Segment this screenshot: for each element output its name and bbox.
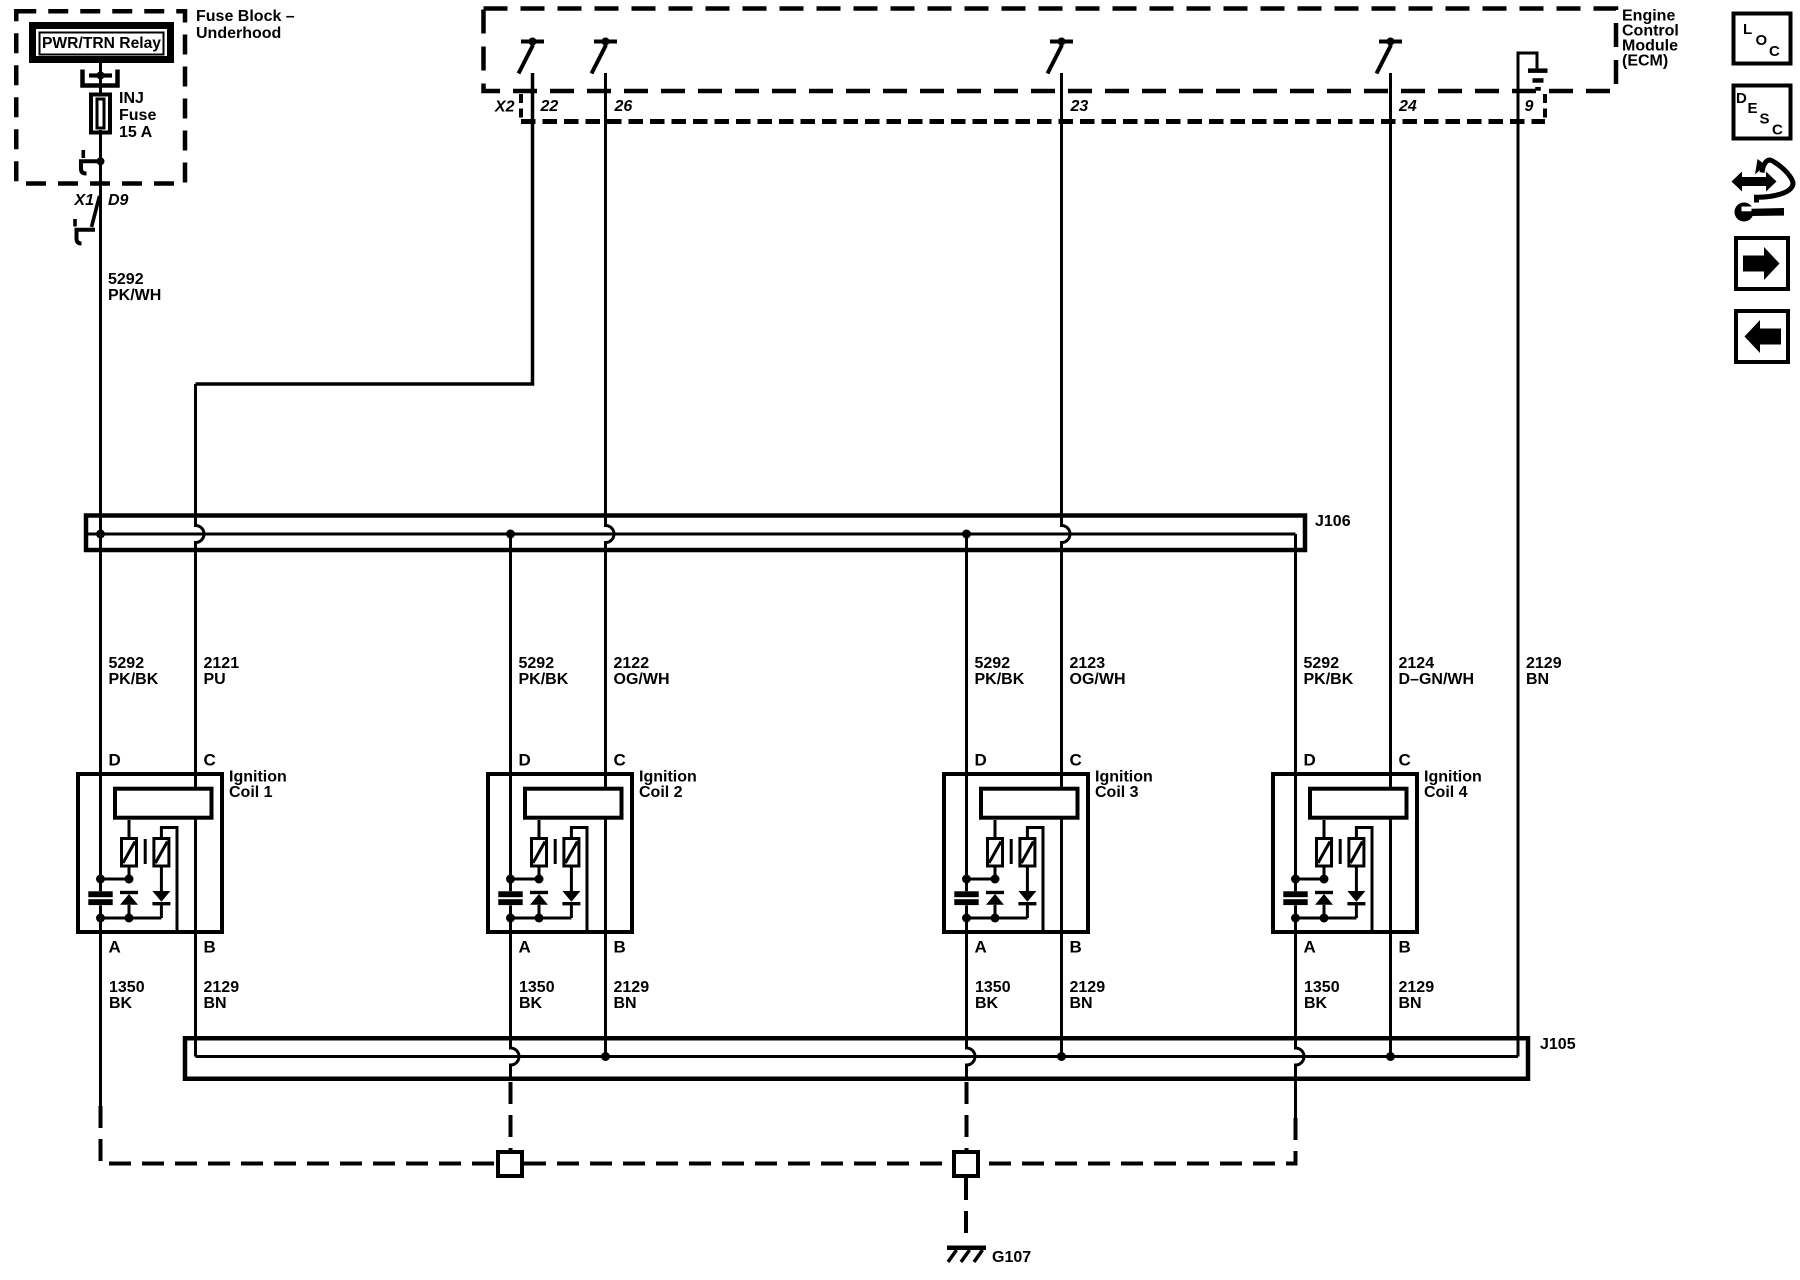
wire fuse to connector X1/D9 <box>99 130 102 530</box>
svg-text:B: B <box>614 938 626 957</box>
svg-text:PK/BK: PK/BK <box>109 671 159 688</box>
coil 4 link primary to pin D line <box>1296 878 1325 881</box>
Engine Control Module (ECM) title <box>1622 8 1679 70</box>
svg-text:5292: 5292 <box>1304 655 1340 672</box>
wire label 1350 BK coil 1 <box>109 979 145 1012</box>
junction dot at relay terminal <box>97 72 105 80</box>
wire 1350 BK : coil 1 pin A down <box>99 905 102 1106</box>
ignition coil 4 name label <box>1424 769 1482 802</box>
svg-text:D: D <box>1736 90 1747 107</box>
svg-text:BN: BN <box>1526 671 1549 688</box>
wire 2122 OG/WH : ECM pin 26 to coil 2 pin C (hops J106) <box>606 73 615 789</box>
coil 4 diode (down) <box>1347 866 1365 918</box>
wire 5292 PK/WH and PK/BK : fuse to splice J106 to coil 1 pin D <box>99 530 102 892</box>
coil 1 secondary output lead <box>161 828 177 933</box>
svg-text:5292: 5292 <box>108 271 144 288</box>
svg-text:E: E <box>1748 100 1758 117</box>
connector X2 row left divider <box>519 94 523 119</box>
ECM output driver pin 26 <box>592 38 618 74</box>
coil 3 link primary to pin D line <box>967 878 996 881</box>
relay PWR/TRN Relay <box>33 26 171 60</box>
svg-text:L: L <box>1743 21 1752 38</box>
svg-text:C: C <box>1772 122 1783 139</box>
svg-text:Coil 4: Coil 4 <box>1424 784 1468 801</box>
coil 4 junction dots <box>1291 875 1329 923</box>
junction dot J105 coil4 ground <box>1386 1052 1395 1061</box>
svg-text:2123: 2123 <box>1070 655 1106 672</box>
coil 2 link primary to pin D line <box>511 878 540 881</box>
svg-text:2129: 2129 <box>204 979 240 996</box>
svg-text:2129: 2129 <box>1070 979 1106 996</box>
ignition coil 1 case <box>78 774 222 932</box>
wire label 5292 PK/BK coil4 <box>1304 655 1354 688</box>
svg-text:G107: G107 <box>992 1249 1031 1266</box>
svg-text:D9: D9 <box>108 192 129 209</box>
wire 1350 BK : coil 3 pin A down (hops J105) <box>967 905 976 1078</box>
svg-text:BK: BK <box>109 995 133 1012</box>
wire label 2122 OG/WH <box>614 655 670 688</box>
ground lead coil 4 (dashed) to splice S2 <box>980 1118 1296 1164</box>
junction dot J105 coil2 ground <box>601 1052 610 1061</box>
icon forward arrow box <box>1736 238 1788 289</box>
junction dot J105 coil3 ground <box>1057 1052 1066 1061</box>
wire label 2129 BN pin9 <box>1526 655 1562 688</box>
svg-text:Ignition: Ignition <box>1095 769 1153 786</box>
svg-text:26: 26 <box>614 98 633 115</box>
ignition coil 3 case <box>944 774 1088 932</box>
wire label 2121 PU <box>204 655 240 688</box>
junction dot at fuse output terminal <box>97 157 105 165</box>
wire label 1350 BK coil 2 <box>519 979 555 1012</box>
svg-text:B: B <box>1399 938 1411 957</box>
svg-text:2122: 2122 <box>614 655 650 672</box>
svg-text:5292: 5292 <box>519 655 555 672</box>
coil 1 link primary to pin D line <box>101 878 130 881</box>
svg-text:Coil 2: Coil 2 <box>639 784 683 801</box>
wire label 5292 PK/BK coil1 <box>109 655 159 688</box>
svg-text:A: A <box>519 938 531 957</box>
svg-text:1350: 1350 <box>519 979 555 996</box>
coil 2 bottom link to pin A line <box>511 917 572 920</box>
Fuse Block - Underhood dashed enclosure <box>16 11 185 183</box>
svg-text:D–GN/WH: D–GN/WH <box>1399 671 1475 688</box>
svg-text:Ignition: Ignition <box>639 769 697 786</box>
svg-text:B: B <box>1070 938 1082 957</box>
splice J106 internal bus wire <box>88 533 1296 536</box>
ECM output driver pin 23 <box>1048 38 1074 74</box>
wire 5292 PK/BK : splice J106 to coil 2 pin D <box>509 534 512 891</box>
coil 3 core <box>1010 839 1013 864</box>
svg-text:PK/BK: PK/BK <box>519 671 569 688</box>
svg-text:Fuse Block –: Fuse Block – <box>196 8 295 25</box>
coil 1 capacitor <box>88 891 112 905</box>
svg-text:C: C <box>1070 751 1082 770</box>
svg-text:B: B <box>204 938 216 957</box>
junction dot J106 coil2 feed <box>506 530 515 539</box>
coil 1 zener diode (up) <box>120 891 138 918</box>
ground lead coil 2 (dashed) to splice S1 <box>509 1082 513 1150</box>
svg-text:1350: 1350 <box>975 979 1011 996</box>
coil 4 primary winding <box>1317 839 1332 867</box>
coil 4 primary winding lower lead <box>1323 866 1326 879</box>
wire 1350 BK : coil 2 pin A down (hops J105) <box>511 905 520 1078</box>
splice pack J106 outline <box>86 516 1305 551</box>
svg-text:BN: BN <box>204 995 227 1012</box>
ignition coil 2 control module block <box>525 789 622 818</box>
wire label 5292 PK/WH <box>108 271 161 304</box>
svg-text:OG/WH: OG/WH <box>1070 671 1126 688</box>
svg-text:9: 9 <box>1525 98 1534 115</box>
coil 3 secondary winding <box>1020 839 1035 867</box>
svg-text:2129: 2129 <box>1399 979 1435 996</box>
coil 1 secondary winding <box>154 839 169 867</box>
Engine Control Module dashed enclosure <box>484 9 1617 92</box>
svg-text:PK/BK: PK/BK <box>1304 671 1354 688</box>
svg-text:24: 24 <box>1398 98 1417 115</box>
svg-text:BK: BK <box>975 995 999 1012</box>
svg-text:C: C <box>204 751 216 770</box>
wire label 2129 BN coil 2 <box>614 979 650 1012</box>
svg-text:BK: BK <box>1304 995 1328 1012</box>
svg-text:PK/WH: PK/WH <box>108 287 161 304</box>
coil 3 lead module to primary winding <box>994 820 997 839</box>
svg-text:5292: 5292 <box>975 655 1011 672</box>
coil 4 lead module to primary winding <box>1323 820 1326 839</box>
wire 2123 OG/WH : ECM pin 23 to coil 3 pin C (hops J106) <box>1062 73 1071 789</box>
wire label 2123 OG/WH <box>1070 655 1126 688</box>
svg-text:1350: 1350 <box>1304 979 1340 996</box>
svg-text:PWR/TRN Relay: PWR/TRN Relay <box>42 35 161 52</box>
svg-text:PK/BK: PK/BK <box>975 671 1025 688</box>
connector X1 pin D9 labels <box>73 192 128 209</box>
svg-text:S: S <box>1760 111 1770 128</box>
coil 2 primary winding lower lead <box>538 866 541 879</box>
icon LOC box <box>1734 14 1791 64</box>
svg-text:23: 23 <box>1070 98 1089 115</box>
ignition coil 3 control module block <box>981 789 1078 818</box>
splice J105 internal bus wire <box>196 1055 1519 1058</box>
icon DESC box <box>1734 86 1791 139</box>
wire label 1350 BK coil 4 <box>1304 979 1340 1012</box>
svg-text:Underhood: Underhood <box>196 25 281 42</box>
svg-text:1350: 1350 <box>109 979 145 996</box>
svg-text:2124: 2124 <box>1399 655 1435 672</box>
coil 1 lead module to primary winding <box>128 820 131 839</box>
wire coil 1 primary to pin B and splice J105 <box>194 820 197 1057</box>
coil 1 junction dots <box>96 875 134 923</box>
coil 2 capacitor <box>498 891 522 905</box>
svg-text:C: C <box>1399 751 1411 770</box>
wire label 2129 BN coil 1 <box>204 979 240 1012</box>
coil 2 junction dots <box>506 875 544 923</box>
coil 3 primary winding lower lead <box>994 866 997 879</box>
coil 4 secondary output lead <box>1356 828 1372 933</box>
icon swap/replace with wrench <box>1732 159 1793 222</box>
svg-text:A: A <box>975 938 987 957</box>
coil 2 lead module to primary winding <box>538 820 541 839</box>
coil 2 secondary winding <box>564 839 579 867</box>
wire label 2129 BN coil 4 <box>1399 979 1435 1012</box>
coil 2 diode (down) <box>562 866 580 918</box>
svg-text:BN: BN <box>1070 995 1093 1012</box>
wire 5292 PK/BK : splice J106 inner wire turns down to coil 4 pin D <box>1294 534 1297 891</box>
ignition coil 4 control module block <box>1310 789 1407 818</box>
svg-text:O: O <box>1756 32 1768 49</box>
svg-text:PU: PU <box>204 671 226 688</box>
splice S2 <box>954 1152 978 1176</box>
ECM output driver pin 22 <box>519 38 545 74</box>
ignition coil 3 name label <box>1095 769 1153 802</box>
svg-text:OG/WH: OG/WH <box>614 671 670 688</box>
ground G107 symbol <box>947 1246 986 1263</box>
connector terminal blade at X1/D9 <box>75 196 100 244</box>
svg-text:Ignition: Ignition <box>229 769 287 786</box>
ignition coil 1 control module block <box>115 789 212 818</box>
fuse INJ Fuse 15 A <box>91 95 110 133</box>
wire label 5292 PK/BK coil3 <box>975 655 1025 688</box>
svg-text:X2: X2 <box>494 99 515 116</box>
svg-text:(ECM): (ECM) <box>1622 53 1668 70</box>
wire 1350 BK : coil 4 pin A down (hops J105) <box>1296 905 1305 1118</box>
ECM output driver pin 24 <box>1377 38 1403 74</box>
wire label 2129 BN coil 3 <box>1070 979 1106 1012</box>
wire 5292 PK/BK : splice J106 to coil 3 pin D <box>965 534 968 891</box>
svg-text:D: D <box>109 751 121 770</box>
ground lead splice S1 to splice S2 (dashed) <box>524 1162 952 1166</box>
ground lead coil 1 (dashed) to splice S1 <box>101 1106 497 1164</box>
connector X2 row dotted boundary <box>521 119 1545 124</box>
connector X2 row right divider <box>1543 94 1547 119</box>
coil 3 primary winding <box>988 839 1003 867</box>
relay output terminal bracket <box>83 70 118 86</box>
ignition coil 4 case <box>1273 774 1417 932</box>
svg-text:2121: 2121 <box>204 655 240 672</box>
wire 2124 D-GN/WH : ECM pin 24 to coil 4 pin C <box>1389 73 1392 789</box>
junction dot J106 coil1 feed <box>96 530 105 539</box>
svg-text:BK: BK <box>519 995 543 1012</box>
svg-text:D: D <box>975 751 987 770</box>
svg-text:X1: X1 <box>73 192 94 209</box>
coil 2 zener diode (up) <box>530 891 548 918</box>
svg-text:BN: BN <box>614 995 637 1012</box>
ground lead coil 3 (dashed) to splice S2 <box>965 1082 969 1150</box>
coil 4 core <box>1339 839 1342 864</box>
coil 1 core <box>144 839 147 864</box>
coil 3 bottom link to pin A line <box>967 917 1028 920</box>
coil 3 zener diode (up) <box>986 891 1004 918</box>
wire label 1350 BK coil 3 <box>975 979 1011 1012</box>
wire relay output to fuse <box>99 63 102 98</box>
svg-text:Coil 3: Coil 3 <box>1095 784 1139 801</box>
coil 1 diode (down) <box>152 866 170 918</box>
ignition coil 2 name label <box>639 769 697 802</box>
wire label 2124 D-GN/WH <box>1399 655 1475 688</box>
wire 2121 PU : pin22 node down to coil 1 pin C (hops J106) <box>196 384 205 789</box>
coil 2 core <box>554 839 557 864</box>
svg-text:C: C <box>614 751 626 770</box>
ignition coil 2 case <box>488 774 632 932</box>
svg-text:2129: 2129 <box>1526 655 1562 672</box>
svg-text:A: A <box>1304 938 1316 957</box>
svg-text:15 A: 15 A <box>119 124 153 141</box>
ignition coil 1 name label <box>229 769 287 802</box>
svg-text:BN: BN <box>1399 995 1422 1012</box>
svg-text:Ignition: Ignition <box>1424 769 1482 786</box>
svg-text:5292: 5292 <box>109 655 145 672</box>
coil 3 diode (down) <box>1018 866 1036 918</box>
svg-text:A: A <box>109 938 121 957</box>
svg-text:2129: 2129 <box>614 979 650 996</box>
coil 1 bottom link to pin A line <box>101 917 162 920</box>
coil 3 junction dots <box>962 875 1000 923</box>
svg-text:J106: J106 <box>1315 513 1351 530</box>
svg-text:D: D <box>1304 751 1316 770</box>
coil 4 secondary winding <box>1349 839 1364 867</box>
wire 2129 BN : coil 2 pin B to splice J105 <box>604 820 607 1057</box>
svg-text:INJ: INJ <box>119 90 144 107</box>
wire 2129 BN : coil 4 pin B to splice J105 <box>1389 820 1392 1057</box>
svg-text:Fuse: Fuse <box>119 107 156 124</box>
wire ECM pin 22 to node for coil 1 (2121) <box>196 73 533 384</box>
svg-text:J105: J105 <box>1540 1036 1576 1053</box>
wire label 5292 PK/BK coil2 <box>519 655 569 688</box>
coil 4 capacitor <box>1283 891 1307 905</box>
coil 1 primary winding <box>122 839 137 867</box>
wire 2129 BN : coil 3 pin B to splice J105 <box>1060 820 1063 1057</box>
splice S1 <box>498 1152 522 1176</box>
wire 2129 BN : ECM pin 9 down to splice J105 <box>1517 122 1520 1057</box>
coil 3 secondary output lead <box>1027 828 1043 933</box>
coil 4 zener diode (up) <box>1315 891 1333 918</box>
fuse value label INJ Fuse 15 A <box>119 90 156 141</box>
icon back arrow box <box>1736 311 1788 362</box>
coil 2 secondary output lead <box>571 828 587 933</box>
coil 3 capacitor <box>954 891 978 905</box>
junction dot J106 coil3 feed <box>962 530 971 539</box>
coil 4 bottom link to pin A line <box>1296 917 1357 920</box>
coil 1 primary winding lower lead <box>128 866 131 879</box>
svg-text:C: C <box>1769 43 1780 60</box>
splice pack J105 outline <box>185 1038 1528 1079</box>
svg-text:Coil 1: Coil 1 <box>229 784 273 801</box>
svg-text:D: D <box>519 751 531 770</box>
ground lead splice S2 to G107 (dashed) <box>964 1178 968 1243</box>
svg-text:22: 22 <box>540 98 559 115</box>
ECM internal ground at pin 9 <box>1518 53 1548 122</box>
coil 2 primary winding <box>532 839 547 867</box>
fuse output terminal hook <box>79 150 99 174</box>
